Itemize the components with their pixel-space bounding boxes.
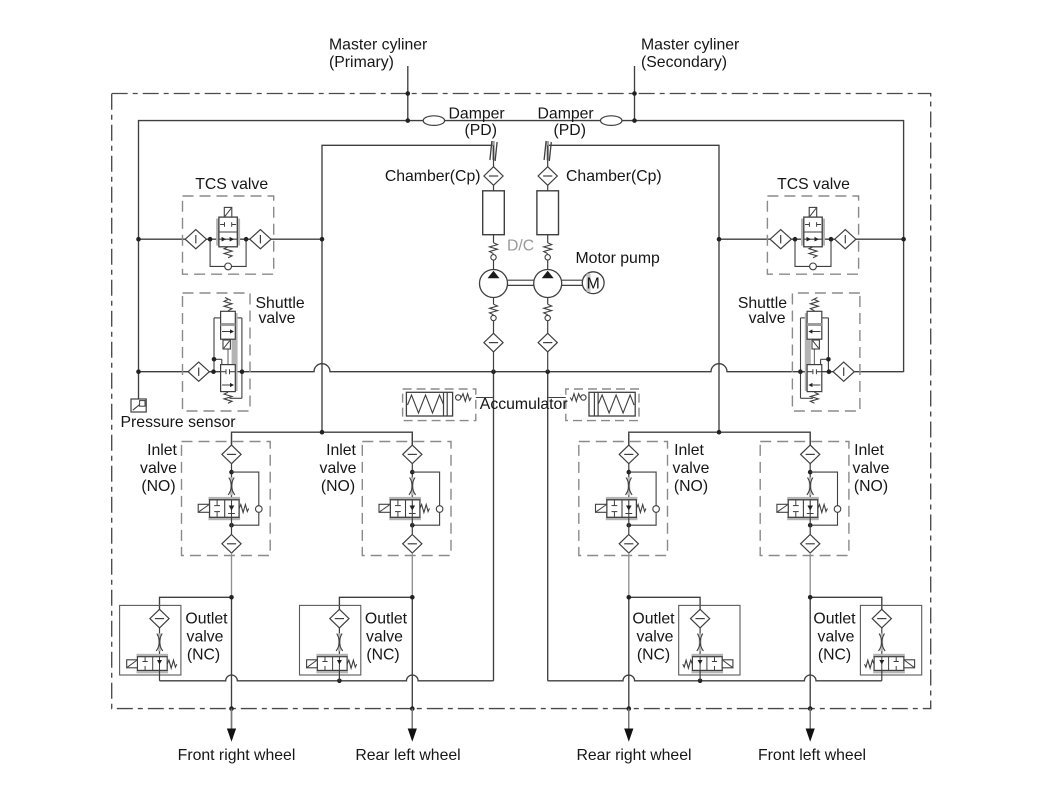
svg-text:Outlet: Outlet <box>365 611 408 628</box>
svg-text:valve: valve <box>320 460 357 477</box>
svg-text:Motor pump: Motor pump <box>576 250 660 267</box>
svg-text:valve: valve <box>637 629 674 646</box>
svg-text:Inlet: Inlet <box>854 442 884 459</box>
svg-text:valve: valve <box>366 629 403 646</box>
svg-text:Front right wheel: Front right wheel <box>178 747 296 764</box>
svg-text:valve: valve <box>749 310 786 327</box>
svg-text:M: M <box>587 275 600 292</box>
svg-text:valve: valve <box>187 629 224 646</box>
svg-text:Front left wheel: Front left wheel <box>758 747 866 764</box>
svg-text:valve: valve <box>673 460 710 477</box>
svg-text:valve: valve <box>853 460 890 477</box>
svg-text:Outlet: Outlet <box>632 611 675 628</box>
svg-text:Outlet: Outlet <box>813 611 856 628</box>
svg-text:valve: valve <box>259 310 296 327</box>
svg-text:Outlet: Outlet <box>185 611 228 628</box>
svg-text:Master cyliner: Master cyliner <box>329 37 427 54</box>
svg-text:(PD): (PD) <box>465 122 497 139</box>
svg-text:Damper: Damper <box>449 106 505 123</box>
svg-text:(NC): (NC) <box>637 647 670 664</box>
svg-text:Chamber(Cp): Chamber(Cp) <box>385 168 481 185</box>
svg-text:Master cyliner: Master cyliner <box>641 37 739 54</box>
svg-text:(NO): (NO) <box>141 478 175 495</box>
svg-text:(NC): (NC) <box>818 647 851 664</box>
svg-text:D/C: D/C <box>507 238 534 255</box>
svg-text:Inlet: Inlet <box>326 442 356 459</box>
svg-text:Inlet: Inlet <box>147 442 177 459</box>
svg-text:(NC): (NC) <box>187 647 220 664</box>
svg-text:Pressure sensor: Pressure sensor <box>121 414 236 431</box>
svg-text:Accumulator: Accumulator <box>480 396 568 413</box>
svg-text:(NO): (NO) <box>321 478 355 495</box>
svg-text:(Secondary): (Secondary) <box>641 54 727 71</box>
svg-text:Inlet: Inlet <box>674 442 704 459</box>
svg-text:(NC): (NC) <box>366 647 399 664</box>
svg-text:Rear left wheel: Rear left wheel <box>355 747 460 764</box>
svg-text:TCS valve: TCS valve <box>777 176 850 193</box>
svg-text:(NO): (NO) <box>674 478 708 495</box>
svg-text:(Primary): (Primary) <box>329 54 394 71</box>
svg-text:(PD): (PD) <box>554 122 586 139</box>
svg-text:Chamber(Cp): Chamber(Cp) <box>566 168 662 185</box>
svg-text:TCS valve: TCS valve <box>195 176 268 193</box>
svg-text:Rear right wheel: Rear right wheel <box>576 747 691 764</box>
svg-text:valve: valve <box>818 629 855 646</box>
svg-text:Damper: Damper <box>538 106 594 123</box>
svg-text:(NO): (NO) <box>854 478 888 495</box>
svg-text:valve: valve <box>140 460 177 477</box>
